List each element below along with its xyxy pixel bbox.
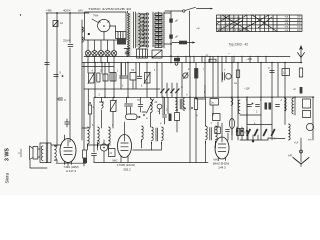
svg-text:Siera: Siera <box>5 172 10 183</box>
svg-text:~10F: ~10F <box>244 88 250 91</box>
svg-text:µF: µF <box>175 35 178 39</box>
svg-text:6 1 4 2 7 3 5: 6 1 4 2 7 3 5 <box>219 27 232 29</box>
svg-text:4 2 6 3 1 5 2: 4 2 6 3 1 5 2 <box>221 20 234 22</box>
svg-text:555.2: 555.2 <box>123 167 131 171</box>
svg-text:TW4: TW4 <box>93 15 99 18</box>
svg-text:10: 10 <box>60 21 64 25</box>
svg-text:244.3: 244.3 <box>218 165 226 169</box>
svg-text:+As: +As <box>46 9 52 13</box>
svg-text:mA: mA <box>308 139 312 142</box>
svg-text:+Uf: +Uf <box>294 141 298 145</box>
svg-text:400/4: 400/4 <box>63 9 71 13</box>
svg-text:(W): (W) <box>78 9 83 13</box>
svg-text:C: C <box>181 85 183 89</box>
svg-text:ω: ω <box>274 138 276 141</box>
svg-text:µF: µF <box>175 19 178 23</box>
svg-text:o2 4 6 1 8 2 4 6 8 0 2 4: o2 4 6 1 8 2 4 6 8 0 2 4 <box>218 17 241 19</box>
svg-text:737: 737 <box>107 144 112 147</box>
svg-text:~220: ~220 <box>246 57 253 61</box>
svg-text:TR6Kl 4/256/3/I2B 30: TR6Kl 4/256/3/I2B 30 <box>88 7 132 11</box>
svg-text:≈vr: ≈vr <box>205 54 209 57</box>
svg-text:3 WS: 3 WS <box>5 148 11 161</box>
svg-text:C: C <box>268 67 270 70</box>
svg-text:Typ 2303 · 42: Typ 2303 · 42 <box>229 43 249 47</box>
svg-text:5Wn2xC4n05·2n0·W8n4·205: 5Wn2xC4n05·2n0·W8n4·205 <box>218 30 249 32</box>
svg-text:~: ~ <box>228 52 230 56</box>
svg-text:A 217.3: A 217.3 <box>66 169 77 173</box>
svg-text:3 7 2 8 4 1: 3 7 2 8 4 1 <box>226 23 237 25</box>
svg-text:250/4: 250/4 <box>63 39 70 43</box>
svg-text:C: C <box>246 99 248 102</box>
svg-text:C: C <box>64 98 66 102</box>
svg-text:~Ψ: ~Ψ <box>196 27 200 31</box>
svg-text:APL: APL <box>288 154 293 158</box>
